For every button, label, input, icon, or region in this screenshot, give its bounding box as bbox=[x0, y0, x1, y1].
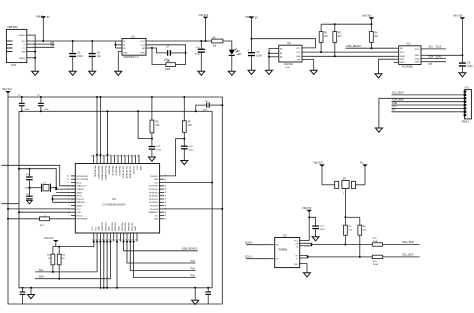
svg-text:32: 32 bbox=[126, 156, 128, 158]
svg-text:34: 34 bbox=[165, 192, 167, 194]
svg-text:100n: 100n bbox=[467, 65, 473, 68]
resistor R10 bbox=[360, 253, 420, 266]
svg-text:REF1: REF1 bbox=[400, 62, 405, 64]
svg-text:CN1: CN1 bbox=[11, 64, 17, 67]
wire GND ring bbox=[19, 110, 212, 288]
resistor R4 bbox=[370, 32, 379, 49]
connector SV1 bbox=[462, 87, 472, 124]
svg-text:RESET#: RESET# bbox=[151, 176, 160, 178]
svg-text:GND: GND bbox=[154, 179, 159, 181]
svg-text:GND: GND bbox=[154, 219, 159, 221]
wire MCU gnd top pin bbox=[107, 111, 109, 156]
svg-text:JP1: JP1 bbox=[342, 179, 347, 181]
capacitor C16 top right bypass bbox=[195, 101, 224, 113]
wire usb5v to IC2 vcc bbox=[252, 39, 316, 48]
svg-text:SDA: SDA bbox=[108, 226, 111, 231]
ground under CN1 bbox=[32, 71, 39, 75]
ground under C15 bbox=[181, 161, 188, 165]
svg-text:AGND: AGND bbox=[77, 191, 83, 194]
svg-text:10K: 10K bbox=[188, 125, 193, 127]
svg-text:CLKOUT: CLKOUT bbox=[132, 166, 134, 175]
svg-text:VCC: VCC bbox=[392, 106, 397, 108]
capacitor C13 bbox=[149, 146, 162, 157]
wire pullup tee bbox=[53, 247, 59, 255]
svg-text:Vdd 3v3: Vdd 3v3 bbox=[362, 13, 372, 17]
svg-text:PD1/FD9: PD1/FD9 bbox=[150, 206, 159, 208]
wire IC5 sda-buf side bbox=[304, 243, 347, 246]
svg-text:PB3/FD3: PB3/FD3 bbox=[115, 222, 117, 231]
resistor R3 bbox=[212, 37, 223, 47]
wire R3 to LED bbox=[223, 41, 232, 50]
resistor R1 bbox=[319, 24, 328, 52]
svg-text:P82B96: P82B96 bbox=[279, 249, 288, 252]
power Vdd 3v3 at R12 R13 bbox=[44, 236, 59, 246]
LED D1 bbox=[229, 48, 242, 71]
ground under C9 bbox=[459, 73, 466, 77]
crystal Q1 bbox=[25, 182, 58, 192]
wire SDA_BUF to SV1 bbox=[391, 97, 463, 101]
svg-text:SV1: SV1 bbox=[465, 87, 470, 90]
capacitor C11 bbox=[26, 188, 33, 200]
wire USB_READY from MCU bbox=[123, 241, 198, 251]
capacitor C6 bbox=[69, 41, 83, 71]
resistor R14 on ifclk pin bbox=[7, 216, 71, 227]
svg-text:5V: 5V bbox=[255, 16, 258, 19]
svg-text:40: 40 bbox=[165, 212, 167, 214]
svg-text:GND: GND bbox=[123, 53, 128, 55]
wire SCL net bbox=[306, 51, 393, 53]
capacitor C12 bbox=[195, 41, 205, 71]
svg-text:SCL: SCL bbox=[39, 269, 44, 272]
svg-text:USB: USB bbox=[245, 15, 251, 19]
svg-text:100n: 100n bbox=[44, 109, 50, 111]
svg-text:29: 29 bbox=[137, 156, 139, 158]
wire DP bbox=[31, 45, 54, 48]
wire cropped net at left edge bbox=[2, 203, 20, 205]
svg-text:ERR: ERR bbox=[141, 53, 146, 55]
wire R7 branch to reset pin bbox=[164, 139, 184, 176]
capacitor C3 bottom right bypass bbox=[205, 288, 211, 304]
svg-text:5V: 5V bbox=[360, 161, 363, 165]
svg-text:VCC: VCC bbox=[135, 166, 137, 171]
wire PA1 net bbox=[126, 241, 196, 263]
svg-text:Vdd 3v3: Vdd 3v3 bbox=[2, 87, 12, 91]
svg-text:PD6/FD14: PD6/FD14 bbox=[149, 189, 159, 191]
ground under C5 bbox=[248, 70, 255, 74]
svg-text:41: 41 bbox=[165, 215, 167, 217]
svg-text:47nF: 47nF bbox=[320, 229, 326, 231]
jumper JP1 bbox=[335, 179, 356, 218]
ground under C6 bbox=[69, 71, 76, 75]
wire SV1 pin7 bbox=[391, 110, 463, 112]
wire PA3 net bbox=[133, 241, 196, 278]
svg-text:VDD 5V: VDD 5V bbox=[302, 206, 312, 210]
wire XTALOUT loop bbox=[2, 165, 76, 186]
svg-text:PB6/FD6: PB6/FD6 bbox=[129, 222, 131, 231]
svg-text:32: 32 bbox=[165, 185, 167, 187]
svg-text:SDA/3: SDA/3 bbox=[245, 242, 253, 245]
wire pullup rail bbox=[321, 23, 372, 25]
wire IC5 scl-buf side bbox=[304, 255, 361, 258]
svg-text:PD2/FD10: PD2/FD10 bbox=[149, 202, 159, 204]
svg-text:SO8: SO8 bbox=[286, 67, 291, 69]
wire SDA/3 into IC5 bbox=[245, 242, 270, 245]
wire OUT2 bbox=[146, 45, 187, 65]
svg-text:34: 34 bbox=[119, 156, 121, 158]
power VBUS bbox=[36, 15, 50, 41]
svg-text:12: 12 bbox=[68, 182, 70, 184]
svg-text:39: 39 bbox=[102, 156, 104, 158]
svg-text:RDY0/SLRD: RDY0/SLRD bbox=[77, 176, 89, 178]
ground under C8 bbox=[89, 71, 96, 75]
capacitor C10 bbox=[26, 168, 33, 188]
wire DM bbox=[31, 41, 54, 44]
ground under C14 bbox=[312, 237, 319, 241]
svg-text:VBUS: VBUS bbox=[36, 15, 43, 19]
svg-text:VCC: VCC bbox=[154, 215, 159, 217]
svg-text:21: 21 bbox=[112, 239, 114, 241]
svg-text:PD7/FD15: PD7/FD15 bbox=[149, 186, 159, 188]
svg-text:XTALOUT: XTALOUT bbox=[77, 185, 87, 188]
svg-text:40: 40 bbox=[98, 156, 100, 158]
svg-text:5V: 5V bbox=[47, 16, 50, 19]
svg-text:CY7C68013A-56LFXC: CY7C68013A-56LFXC bbox=[102, 204, 126, 207]
svg-text:13: 13 bbox=[68, 179, 70, 181]
svg-text:100K: 100K bbox=[165, 69, 171, 71]
svg-text:10uF: 10uF bbox=[256, 55, 262, 58]
svg-text:31: 31 bbox=[130, 156, 132, 158]
svg-text:GND: GND bbox=[400, 59, 405, 61]
wire SDA to MCU bbox=[35, 241, 111, 280]
wire SDA net bbox=[306, 55, 393, 57]
svg-text:24LC64: 24LC64 bbox=[284, 63, 293, 66]
wire MCU left vcc pin bbox=[7, 208, 71, 210]
svg-text:10u: 10u bbox=[97, 55, 102, 58]
wire pullup select tee bbox=[344, 216, 359, 225]
capacitor C8 bbox=[89, 41, 102, 71]
svg-text:VCC: VCC bbox=[92, 226, 94, 231]
svg-text:GND: GND bbox=[21, 52, 26, 54]
svg-text:USB-B/M: USB-B/M bbox=[7, 26, 17, 29]
wire MCU bottom gnd pins bbox=[99, 241, 118, 289]
svg-text:PA3/WU2: PA3/WU2 bbox=[107, 166, 110, 176]
svg-text:PD3/FD11: PD3/FD11 bbox=[149, 199, 159, 201]
svg-text:IC1: IC1 bbox=[131, 35, 136, 38]
svg-text:USB_READY: USB_READY bbox=[182, 247, 198, 251]
svg-text:SDA2: SDA2 bbox=[415, 57, 420, 60]
svg-text:33: 33 bbox=[165, 189, 167, 191]
wire AGND pin bbox=[55, 188, 75, 192]
svg-text:USB_READY: USB_READY bbox=[346, 44, 362, 48]
svg-text:IFCLK: IFCLK bbox=[77, 215, 83, 217]
power Vdd 3v3 MCU bbox=[2, 87, 12, 93]
ground under IC3 bbox=[375, 74, 382, 78]
wire IC1 gnd pin bbox=[118, 51, 122, 71]
svg-text:PB7/FD7: PB7/FD7 bbox=[132, 222, 134, 231]
svg-text:SCL/3: SCL/3 bbox=[245, 256, 253, 259]
ground under C13 bbox=[148, 157, 155, 161]
wire MCU bottom vcc pin bbox=[58, 241, 95, 248]
svg-text:330R: 330R bbox=[373, 264, 379, 266]
svg-text:100n: 100n bbox=[156, 149, 162, 151]
svg-text:35: 35 bbox=[165, 195, 167, 197]
resistor R7 bbox=[182, 97, 192, 146]
wire IC2 address pins to gnd bbox=[268, 49, 274, 71]
wire MCU right vcc bbox=[164, 182, 213, 184]
power VDD 5V at IC5 bbox=[302, 206, 312, 241]
resistor R11 bbox=[345, 238, 419, 246]
wire VCC rail bbox=[31, 40, 115, 42]
svg-text:42: 42 bbox=[165, 218, 167, 220]
wire SCL/3 into IC5 bbox=[245, 256, 270, 259]
svg-text:CTL0/FLAGA: CTL0/FLAGA bbox=[128, 166, 131, 179]
svg-text:IC2: IC2 bbox=[287, 42, 292, 45]
svg-text:30: 30 bbox=[165, 179, 167, 181]
wire SCL 3v3 out bbox=[426, 47, 447, 49]
svg-text:PD0/FD8: PD0/FD8 bbox=[150, 209, 159, 211]
svg-text:SCL: SCL bbox=[429, 47, 434, 49]
svg-text:XTALIN: XTALIN bbox=[77, 188, 85, 191]
svg-text:PA2: PA2 bbox=[191, 267, 196, 270]
svg-text:LED: LED bbox=[237, 54, 242, 56]
svg-text:42: 42 bbox=[91, 156, 93, 158]
ground under IC1 bbox=[115, 71, 122, 75]
resistor R13 bbox=[57, 254, 66, 279]
power Vdd 3v3 at IC3 bbox=[453, 13, 465, 62]
svg-text:SCL0: SCL0 bbox=[436, 47, 442, 49]
regulator IC1 ADP3303 bbox=[122, 35, 146, 59]
level translator IC3 PCA9306 bbox=[394, 42, 426, 68]
resistor R6 bbox=[152, 48, 186, 71]
wire SDA 3v3 out bbox=[426, 55, 447, 58]
svg-text:SDA: SDA bbox=[296, 55, 301, 58]
svg-text:IC3: IC3 bbox=[407, 42, 412, 45]
svg-text:10K: 10K bbox=[155, 125, 160, 127]
svg-text:CTL1/FLAGB: CTL1/FLAGB bbox=[125, 166, 128, 179]
wire IC5 gnd bbox=[304, 264, 307, 273]
resistor R2 bbox=[333, 24, 342, 56]
svg-text:37: 37 bbox=[109, 156, 111, 158]
capacitor C7 bbox=[164, 47, 186, 62]
wire MCU right gnd bbox=[164, 208, 223, 210]
svg-text:VCC: VCC bbox=[77, 209, 82, 211]
svg-text:36: 36 bbox=[112, 156, 114, 158]
svg-text:PB4/FD4: PB4/FD4 bbox=[122, 222, 124, 231]
capacitor C14 bbox=[309, 217, 325, 236]
ground under IC2 address pins bbox=[266, 70, 273, 74]
ground under D1 bbox=[228, 71, 235, 75]
wire SV1 pin6 bbox=[391, 106, 463, 108]
svg-text:Vdd 3v3: Vdd 3v3 bbox=[453, 13, 463, 17]
svg-text:GND: GND bbox=[392, 103, 397, 105]
svg-text:PB2/FD2: PB2/FD2 bbox=[112, 222, 114, 231]
svg-text:PA5/FIFOADR1: PA5/FIFOADR1 bbox=[100, 166, 103, 181]
svg-text:WAKEUP#: WAKEUP# bbox=[149, 211, 160, 214]
power Vdd 3v3 at JP1 bbox=[313, 161, 335, 185]
svg-text:PD5/FD13: PD5/FD13 bbox=[149, 192, 159, 194]
svg-text:Vdd 3v3: Vdd 3v3 bbox=[313, 161, 323, 165]
wire R5 branch bbox=[138, 111, 152, 138]
svg-text:VCC: VCC bbox=[154, 182, 159, 184]
svg-text:SHIELD: SHIELD bbox=[19, 58, 26, 60]
svg-text:RDY1/SLWR: RDY1/SLWR bbox=[77, 179, 89, 181]
svg-text:PCA9306: PCA9306 bbox=[402, 66, 413, 69]
wire MCU left gnd pin bbox=[18, 211, 71, 213]
wire XTALIN loop bbox=[18, 168, 75, 189]
svg-text:PB0/FD0: PB0/FD0 bbox=[102, 222, 104, 231]
svg-text:SCL2: SCL2 bbox=[415, 49, 420, 51]
svg-text:33: 33 bbox=[123, 156, 125, 158]
svg-text:PA4/FIFOADR0: PA4/FIFOADR0 bbox=[104, 166, 107, 181]
i2c buffer IC5 P82B96 bbox=[270, 234, 304, 267]
ground under IC5 bbox=[304, 273, 311, 277]
svg-text:28: 28 bbox=[135, 239, 137, 241]
svg-text:PA3: PA3 bbox=[191, 274, 196, 277]
capacitor C15 bbox=[181, 146, 194, 161]
wire SV1 gnd bbox=[379, 98, 464, 128]
svg-text:GND: GND bbox=[135, 226, 137, 231]
svg-text:INT: INT bbox=[392, 110, 396, 112]
wire NR bbox=[146, 47, 167, 53]
svg-text:GND: GND bbox=[119, 226, 121, 231]
svg-text:DPLUS: DPLUS bbox=[77, 199, 84, 201]
svg-text:38: 38 bbox=[165, 205, 167, 207]
svg-text:100n: 100n bbox=[189, 149, 195, 151]
svg-text:INT: INT bbox=[429, 64, 433, 66]
wire MCU vcc top pins bbox=[96, 97, 102, 156]
svg-text:GND: GND bbox=[294, 264, 299, 266]
svg-text:SDA_BUF: SDA_BUF bbox=[392, 97, 404, 101]
wire shield-gnd bus bbox=[31, 35, 36, 71]
wire USB_READY net bbox=[345, 44, 393, 49]
svg-text:AVCC: AVCC bbox=[77, 181, 83, 184]
svg-text:DMINUS: DMINUS bbox=[77, 202, 86, 204]
svg-text:PD4/FD12: PD4/FD12 bbox=[149, 196, 159, 198]
svg-text:100n: 100n bbox=[25, 109, 31, 111]
ground under C11 bbox=[27, 200, 33, 203]
svg-text:FE08-1: FE08-1 bbox=[462, 121, 470, 123]
svg-text:470p: 470p bbox=[195, 54, 201, 56]
svg-text:SDA_BUF: SDA_BUF bbox=[402, 240, 414, 244]
svg-text:DP: DP bbox=[51, 45, 55, 48]
power USB 5V bbox=[245, 15, 258, 52]
svg-text:14: 14 bbox=[68, 176, 70, 178]
power 5V at JP1 bbox=[356, 161, 368, 185]
resistor R9 bbox=[358, 225, 367, 257]
svg-text:Vdd 3v3: Vdd 3v3 bbox=[198, 13, 208, 17]
svg-text:37: 37 bbox=[165, 202, 167, 204]
ground bottom left bbox=[28, 288, 35, 299]
wire IC2 WP to gnd bbox=[306, 60, 313, 71]
svg-text:PA2/SLOE: PA2/SLOE bbox=[111, 166, 114, 177]
wire SCL to MCU bbox=[35, 241, 98, 273]
ground under C12 bbox=[198, 71, 205, 75]
svg-text:SHIELD: SHIELD bbox=[19, 35, 26, 37]
eeprom IC2 24LC64 bbox=[274, 42, 306, 69]
resistor R8 bbox=[344, 217, 353, 244]
wire IC3 ref to vdd bbox=[426, 54, 464, 56]
capacitor C4 bottom left bypass bbox=[20, 288, 26, 304]
resistor R5 bbox=[150, 97, 160, 146]
svg-text:23: 23 bbox=[118, 239, 120, 241]
svg-text:SDA: SDA bbox=[39, 276, 44, 279]
svg-text:330R: 330R bbox=[373, 241, 379, 243]
svg-text:38: 38 bbox=[105, 156, 107, 158]
capacitor C2 bbox=[37, 95, 49, 112]
svg-text:100n: 100n bbox=[203, 109, 209, 111]
svg-text:AGND: AGND bbox=[77, 205, 83, 208]
svg-text:GND: GND bbox=[139, 166, 141, 171]
wire OUT rail bbox=[146, 40, 212, 42]
svg-text:29: 29 bbox=[165, 176, 167, 178]
svg-text:GND: GND bbox=[99, 226, 101, 231]
svg-text:CTL2/FLAGC: CTL2/FLAGC bbox=[121, 166, 124, 179]
svg-text:30: 30 bbox=[133, 156, 135, 158]
capacitor C5 bbox=[247, 48, 262, 70]
svg-text:ADP3303-3.3: ADP3303-3.3 bbox=[124, 56, 140, 59]
svg-text:VCC: VCC bbox=[22, 41, 27, 43]
svg-text:IC4: IC4 bbox=[112, 198, 116, 201]
wire IC3 aux out bbox=[426, 62, 447, 66]
wire IC3 gnd pin bbox=[379, 59, 394, 74]
svg-text:RESERVED: RESERVED bbox=[77, 219, 89, 221]
power Vdd 3v3 for regulator output bbox=[198, 13, 208, 41]
capacitor C1 bbox=[18, 95, 30, 112]
svg-text:36: 36 bbox=[165, 199, 167, 201]
svg-text:REF2: REF2 bbox=[415, 55, 420, 57]
svg-text:SCL1: SCL1 bbox=[400, 52, 405, 54]
ground under IC2 WP bbox=[310, 70, 317, 74]
wire SV1 pin5 bbox=[391, 103, 463, 105]
svg-text:AVCC: AVCC bbox=[77, 195, 83, 198]
svg-text:SCL_BUF: SCL_BUF bbox=[402, 253, 414, 257]
connector CN1 USB-B mini bbox=[6, 26, 31, 67]
svg-text:35: 35 bbox=[116, 156, 118, 158]
svg-text:PA1: PA1 bbox=[191, 260, 196, 263]
svg-text:PB5/FD5: PB5/FD5 bbox=[125, 222, 127, 231]
power Vdd 3v3 pullup rail bbox=[362, 13, 374, 31]
svg-text:Vdd 3v3: Vdd 3v3 bbox=[44, 236, 54, 240]
svg-text:PA6/PKTEND: PA6/PKTEND bbox=[97, 166, 100, 179]
svg-text:SDA1: SDA1 bbox=[400, 55, 405, 58]
svg-text:SDA: SDA bbox=[429, 55, 434, 58]
wire analog pins bbox=[52, 196, 76, 203]
svg-text:VREF: VREF bbox=[414, 62, 420, 64]
svg-text:SDA0: SDA0 bbox=[436, 55, 443, 58]
svg-text:PA7/FLAGD: PA7/FLAGD bbox=[93, 166, 96, 178]
svg-text:SCL_BUF: SCL_BUF bbox=[392, 91, 404, 95]
svg-text:PA1/INT1#: PA1/INT1# bbox=[114, 166, 117, 177]
wire PA2 net bbox=[129, 241, 195, 271]
resistor R12 bbox=[47, 254, 55, 272]
wire VDD ring bbox=[8, 93, 222, 304]
svg-text:100n: 100n bbox=[77, 55, 83, 58]
wire IC1 input bbox=[115, 41, 123, 48]
wire SCL_BUF to SV1 bbox=[391, 91, 463, 95]
svg-text:GND: GND bbox=[77, 212, 82, 214]
ground bottom mid bbox=[192, 288, 199, 305]
microcontroller IC4 CY7C68013A bbox=[68, 155, 167, 242]
svg-text:41: 41 bbox=[95, 156, 97, 158]
svg-text:PB1/FD1: PB1/FD1 bbox=[105, 222, 107, 231]
ground for SV1 bbox=[375, 128, 382, 132]
svg-text:PA0/INT0#: PA0/INT0# bbox=[118, 166, 121, 177]
svg-text:IC5: IC5 bbox=[283, 234, 287, 237]
svg-text:VCC: VCC bbox=[296, 48, 301, 50]
svg-text:VCC: VCC bbox=[294, 241, 299, 243]
capacitor C9 bbox=[459, 61, 473, 72]
